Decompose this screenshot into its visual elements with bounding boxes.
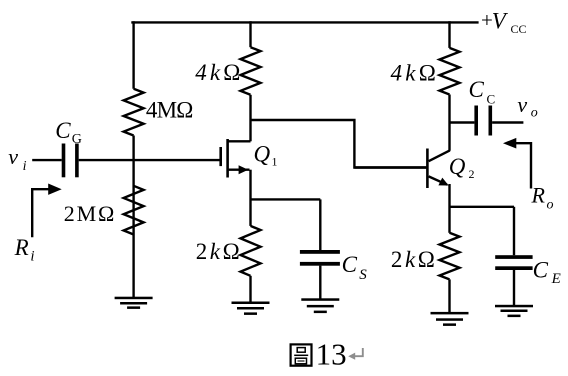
svg-text:C: C [55, 118, 71, 143]
svg-text:C: C [469, 77, 485, 102]
svg-text:v: v [517, 92, 527, 117]
svg-text:i: i [23, 159, 27, 174]
svg-text:v: v [8, 144, 18, 169]
svg-text:E: E [551, 271, 561, 287]
svg-text:2kΩ: 2kΩ [196, 239, 240, 264]
svg-text:C: C [533, 257, 549, 282]
svg-text:C: C [487, 92, 496, 107]
svg-text:G: G [72, 132, 82, 147]
svg-text:4kΩ: 4kΩ [195, 60, 240, 85]
svg-text:CC: CC [511, 22, 527, 36]
svg-text:Q: Q [449, 154, 466, 179]
svg-text:2MΩ: 2MΩ [64, 201, 115, 226]
svg-text:2kΩ: 2kΩ [391, 247, 435, 272]
svg-text:o: o [547, 198, 554, 213]
svg-text:2: 2 [469, 167, 475, 181]
svg-text:R: R [14, 235, 29, 260]
svg-text:Q: Q [254, 141, 271, 166]
svg-text:4kΩ: 4kΩ [391, 60, 436, 85]
svg-text:R: R [531, 183, 546, 208]
svg-text:C: C [342, 252, 358, 277]
svg-text:4MΩ: 4MΩ [146, 98, 194, 123]
svg-text:S: S [359, 267, 367, 283]
svg-text:o: o [531, 105, 538, 120]
svg-text:13: 13 [316, 336, 347, 371]
svg-text:1: 1 [272, 155, 278, 169]
svg-text:i: i [30, 249, 34, 265]
